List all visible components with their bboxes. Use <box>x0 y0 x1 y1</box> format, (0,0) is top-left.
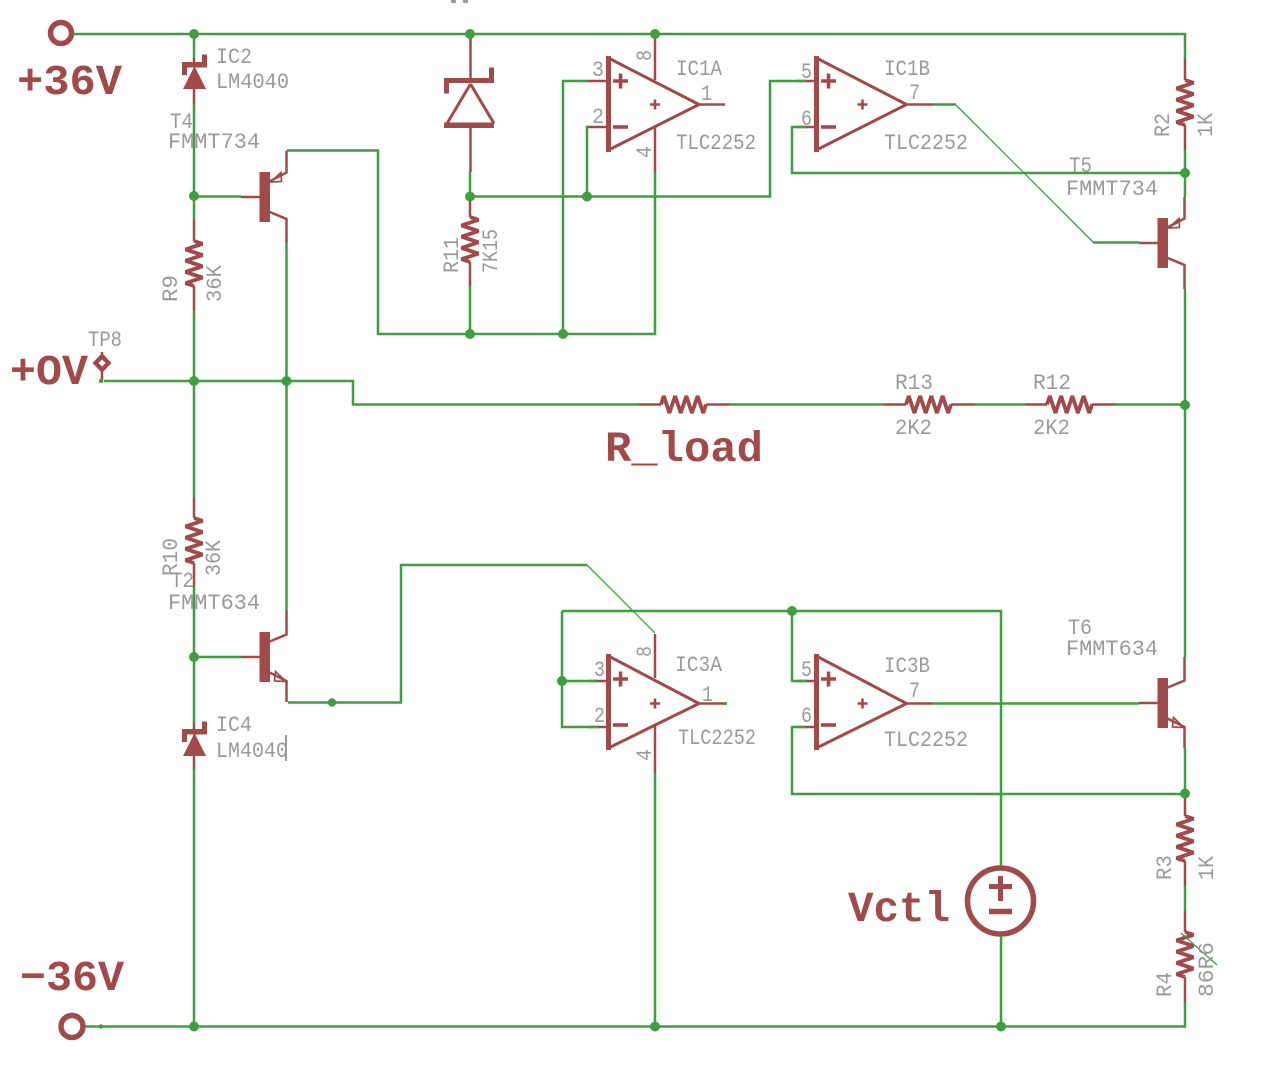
wire T4 base <box>194 195 241 198</box>
junction IC3A pin3 node <box>557 676 567 686</box>
zener diode D1 <box>444 68 494 129</box>
svg-text:8: 8 <box>633 50 658 61</box>
svg-text:IC1B: IC1B <box>884 57 930 82</box>
svg-text:R12: R12 <box>1033 371 1071 396</box>
svg-text:R4: R4 <box>1153 972 1178 997</box>
svg-text:LM4040: LM4040 <box>216 70 289 95</box>
svg-text:2: 2 <box>592 105 604 130</box>
junction T2 emitter wire <box>328 698 336 706</box>
svg-text:R11: R11 <box>440 237 465 273</box>
junction -36V rail tap <box>99 1024 103 1028</box>
resistor R13 2K2 <box>884 396 975 413</box>
zener IC4 top stub <box>193 722 196 729</box>
op-amp IC3B center + marker <box>858 699 868 709</box>
svg-text:IC1A: IC1A <box>676 57 723 82</box>
wire node196 to IC1B pin5 <box>470 81 806 197</box>
op-amp IC3A pin 3 stub <box>588 680 607 683</box>
wire R12 to node405 <box>1113 403 1185 406</box>
junction row334 at IC1A pin3 <box>558 329 568 339</box>
svg-text:86R6: 86R6 <box>1195 942 1220 997</box>
test point TP8 <box>93 352 112 381</box>
svg-text:R2: R2 <box>1151 113 1176 137</box>
wire IC4 to -36V rail <box>193 768 196 1027</box>
wire Vctl bottom to rail <box>1000 936 1003 1027</box>
resistor R2 1K <box>1177 59 1194 150</box>
svg-text:TLC2252: TLC2252 <box>884 131 968 156</box>
wire IC3B pin6 feedback to node 794 <box>792 727 1185 794</box>
wire to T5 base <box>1093 241 1139 244</box>
op-amp IC1A pin 8 stub <box>654 36 657 80</box>
zener IC2 bottom stub <box>193 89 196 104</box>
svg-text:8: 8 <box>633 646 658 657</box>
junction T2 base node <box>189 652 199 662</box>
wire D1 bottom to node <box>469 171 472 197</box>
op-amp IC3A noninverting + marker <box>613 672 628 687</box>
op-amp IC1A pin 1 output stub <box>699 103 725 106</box>
op-amp IC1A pin 3 stub <box>587 80 607 83</box>
+36V supply pin <box>51 23 72 44</box>
op-amp IC3A center + marker <box>650 699 660 709</box>
junction row405 right <box>1180 400 1190 410</box>
wire IC3A pin4 to -36V rail <box>654 773 657 1027</box>
text cursor artifact after LM4040 <box>285 735 287 761</box>
svg-text:7K15: 7K15 <box>479 229 504 273</box>
op-amp IC1A noninverting + marker <box>613 74 628 89</box>
op-amp IC1B body <box>815 56 907 152</box>
wire +36V top rail <box>74 34 1185 59</box>
op-amp IC3A body <box>607 654 700 750</box>
wire row405 to T6 collector <box>1184 405 1187 657</box>
svg-text:+OV: +OV <box>10 348 88 397</box>
svg-text:1: 1 <box>702 683 713 708</box>
op-amp IC1A inverting - marker <box>613 125 628 129</box>
svg-text:36K: 36K <box>203 264 228 302</box>
wire IC1A pin3 down to row334 <box>563 81 588 334</box>
wire T4 collector to T2 collector (0V) <box>285 243 288 611</box>
junction node173 R2/T5 <box>1180 168 1190 178</box>
op-amp IC3A inverting - marker <box>613 723 628 727</box>
op-amp IC1B pin 5 stub <box>796 80 815 83</box>
wire -36V bottom rail <box>85 1002 1185 1027</box>
junction row334 at R11 <box>465 329 475 339</box>
op-amp IC1B pin 7 output stub <box>907 103 934 106</box>
junction +36V / IC2 <box>189 29 199 39</box>
op-amp IC3A pin 8 stub <box>654 634 657 678</box>
resistor R11 7K15 <box>462 196 479 287</box>
svg-text:1K: 1K <box>1194 112 1219 137</box>
wire IC1B pin6 to node 173 <box>792 127 1185 173</box>
transistor T4 FMMT734 (PNP) <box>241 151 287 243</box>
op-amp IC1B noninverting + marker <box>821 74 836 89</box>
zener IC2 top stub <box>193 58 196 62</box>
op-amp IC1B center + marker <box>858 100 868 110</box>
svg-text:TLC2252: TLC2252 <box>678 726 756 751</box>
svg-text:TLC2252: TLC2252 <box>884 728 968 753</box>
op-amp IC1B pin 6 stub <box>796 126 815 129</box>
svg-text:4: 4 <box>633 146 658 158</box>
svg-text:FMMT734: FMMT734 <box>168 130 260 155</box>
op-amp IC1A center + marker <box>650 100 660 110</box>
svg-text:IC3A: IC3A <box>675 653 723 678</box>
junction -36V rail at IC3A pin4 <box>650 1022 660 1032</box>
zener diode IC4 LM4040 <box>182 722 207 757</box>
wire IC1B out to diagonal <box>933 103 956 106</box>
transistor T5 FMMT734 (PNP) <box>1139 197 1185 289</box>
svg-text:5: 5 <box>801 658 812 683</box>
svg-text:6: 6 <box>801 704 812 729</box>
svg-text:+36V: +36V <box>17 58 122 107</box>
junction +36V / IC1A pin8 <box>650 29 660 39</box>
svg-text:7: 7 <box>909 679 920 704</box>
op-amp IC3B pin 6 stub <box>796 726 815 729</box>
junction row611 at IC3B pin5 <box>787 606 797 616</box>
junction -36V rail at Vctl <box>996 1022 1006 1032</box>
op-amp IC3B inverting - marker <box>821 723 836 727</box>
transistor T2 FMMT634 (NPN) <box>241 611 287 702</box>
junction 0V at R9/R10 <box>189 376 199 386</box>
wire R_load to R13 <box>730 403 884 406</box>
wire R13 to R12 <box>975 403 1025 406</box>
junction node196 at IC2-R9 <box>189 191 199 201</box>
svg-text:TLC2252: TLC2252 <box>676 131 756 156</box>
svg-text:R13: R13 <box>895 371 933 396</box>
zener IC4 bottom stub <box>193 756 196 770</box>
resistor R9 36K <box>186 220 203 311</box>
resistor R4 86R6 <box>1177 911 1194 1002</box>
svg-text:R9: R9 <box>159 275 184 302</box>
svg-text:FMMT634: FMMT634 <box>1066 637 1158 662</box>
wire +0V rail <box>104 381 639 405</box>
op-amp IC3B body <box>815 654 907 750</box>
wire node611 down to IC3A inputs <box>561 611 564 681</box>
svg-text:1: 1 <box>701 82 712 107</box>
zener diode D1 bottom stub <box>469 128 472 172</box>
op-amp IC3A pin 1 output stub <box>699 702 726 705</box>
svg-text:IC3B: IC3B <box>884 654 930 679</box>
op-amp IC3A pin 4 stub <box>654 725 657 773</box>
junction node196 at IC1A pin2 <box>582 192 592 202</box>
junction -36V rail at IC4 <box>189 1022 199 1032</box>
svg-text:Vctl: Vctl <box>848 885 950 934</box>
wire IC2 top <box>193 34 196 58</box>
svg-text:−36V: −36V <box>20 954 124 1003</box>
wire diagonal to IC3A pin8 <box>587 565 655 633</box>
svg-text:IC2: IC2 <box>216 45 252 70</box>
svg-text:IC4: IC4 <box>216 713 252 738</box>
svg-text:R_load: R_load <box>605 425 763 474</box>
resistor R12 2K2 <box>1025 396 1116 413</box>
svg-text:6: 6 <box>801 107 812 132</box>
resistor R10 36K <box>186 497 203 588</box>
wire diagonal IC1B out to T5 base <box>956 105 1093 242</box>
-36V supply pin <box>61 1016 83 1038</box>
svg-text:1K: 1K <box>1195 855 1220 880</box>
wire diagonal mark across R4 <box>1181 933 1217 965</box>
op-amp IC3B pin 7 output stub <box>907 702 934 705</box>
junction node793 T6/R3 <box>1180 789 1190 799</box>
op-amp IC1A pin 2 stub <box>587 126 607 129</box>
wire T2 base <box>194 656 241 659</box>
wire IC3B output to T6 base <box>933 702 1139 705</box>
svg-text:3: 3 <box>592 58 604 83</box>
op-amp IC3A pin 2 stub <box>588 726 607 729</box>
wire R9 to R10 through 0V node <box>193 311 196 497</box>
zener diode D1 top stub <box>469 36 472 78</box>
wire IC3A input pair <box>562 680 599 727</box>
svg-text:FMMT734: FMMT734 <box>1066 177 1158 202</box>
op-amp IC1A body <box>607 56 700 152</box>
transistor T6 FMMT634 (NPN) <box>1139 657 1185 748</box>
svg-text:LM4040: LM4040 <box>216 739 288 764</box>
voltage source Vctl <box>968 868 1034 934</box>
wire node row611 to Vctl top <box>562 611 1001 866</box>
wire R2 bottom to T5 emitter (node 173) <box>1184 150 1187 197</box>
op-amp IC1A pin 4 stub <box>654 127 657 172</box>
svg-text:4: 4 <box>633 749 658 761</box>
resistor R_load <box>639 396 730 413</box>
wire T6 emitter to R3 (node 793) <box>1184 748 1187 795</box>
junction +36V / D1 <box>465 29 475 39</box>
svg-text:2: 2 <box>594 704 605 729</box>
svg-text:2K2: 2K2 <box>1033 416 1070 441</box>
op-amp IC3B noninverting + marker <box>821 672 836 687</box>
wire R11 bottom to row334 <box>469 286 472 334</box>
wire R3 to R4 <box>1184 886 1187 911</box>
svg-text:36K: 36K <box>202 539 227 576</box>
svg-text:7: 7 <box>909 81 920 106</box>
junction TP8 tap <box>99 379 103 383</box>
junction 0V at T4/T2 collectors <box>282 376 292 386</box>
stray text remnant top <box>451 0 456 3</box>
op-amp IC1B inverting - marker <box>821 125 836 129</box>
zener diode IC2 LM4040 <box>182 55 207 90</box>
wire IC1A pin2 to node196 <box>587 127 588 196</box>
node IC3A output stub tip <box>724 702 727 705</box>
op-amp IC3B pin 5 stub <box>796 680 815 683</box>
svg-text:TP8: TP8 <box>88 328 122 353</box>
wire IC2 to R9 (node at 196) <box>193 103 196 220</box>
wire T2 emitter to IC3A pin8 run <box>288 565 587 703</box>
svg-text:FMMT634: FMMT634 <box>168 591 260 616</box>
svg-text:5: 5 <box>801 60 812 85</box>
wire IC3B pin5 <box>792 611 806 681</box>
wire T4 emitter to IC1A pin4 (row334) <box>287 151 656 335</box>
wire R10 to IC4 (T2 base node) <box>193 585 196 724</box>
resistor R3 1K <box>1177 795 1194 886</box>
junction node196 at D1-R11 <box>465 192 475 202</box>
svg-text:3: 3 <box>594 658 605 683</box>
wire T5 collector down to row405 <box>1184 289 1187 405</box>
svg-text:T5: T5 <box>1069 154 1092 179</box>
svg-text:R3: R3 <box>1153 855 1178 880</box>
svg-text:2K2: 2K2 <box>895 416 932 441</box>
